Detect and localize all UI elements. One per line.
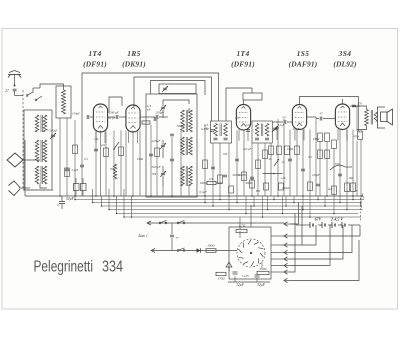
osc coil L4 [181, 110, 193, 132]
svg-text:1S5: 1S5 [297, 49, 310, 58]
wire out bottom [357, 126, 367, 136]
wire grid loop T1 [109, 97, 122, 113]
switch arm mid [113, 142, 119, 150]
capacitor c1 [94, 149, 98, 151]
rotary wires [229, 231, 262, 268]
tube V2 1R5 [126, 105, 140, 132]
wire T4 plate right [307, 117, 316, 119]
svg-text:334: 334 [102, 259, 123, 276]
osc coil L6 [181, 166, 193, 186]
svg-text:0,1µF: 0,1µF [278, 124, 285, 127]
trimmer if2 right [272, 124, 285, 132]
RF coil box [24, 110, 52, 190]
svg-text:500pF: 500pF [177, 124, 187, 128]
osc trimmer 2 [160, 143, 166, 149]
svg-text:47k: 47k [209, 177, 214, 181]
IF1 coil b [224, 124, 228, 137]
IF1 cap a [214, 138, 218, 140]
capacitor 220pF osc [170, 134, 174, 136]
svg-text:37: 37 [176, 236, 180, 240]
svg-text:170Ω: 170Ω [217, 277, 225, 281]
svg-text:Διακ ć: Διακ ć [137, 234, 148, 238]
wire osc internal 3 [162, 166, 164, 186]
capacitor c13 [223, 175, 227, 177]
label 680 [246, 181, 254, 185]
capacitor c3 [80, 165, 84, 167]
band switch contacts [26, 88, 42, 101]
osc trimmer 1 [160, 105, 166, 111]
capacitor c2 [65, 169, 79, 172]
osc core 2 [186, 137, 187, 155]
trimmer 7-20pF [47, 129, 59, 140]
tube leads [129, 132, 138, 144]
capacitor 200pF b [156, 111, 166, 120]
svg-text:25 pF: 25 pF [292, 127, 299, 131]
wire T3 grid cap [243, 100, 245, 105]
resistor r14 [155, 148, 160, 157]
label +4.5V [241, 274, 250, 279]
bus staircase verticals [74, 189, 132, 218]
capacitor c4 [211, 167, 215, 169]
resistor 170 left [216, 272, 226, 280]
resistor r13 [351, 183, 356, 192]
svg-text:170: 170 [357, 102, 362, 106]
resistor r10 [308, 182, 313, 191]
electrolytic 32uF b [255, 275, 266, 287]
resistor 47k h [207, 177, 216, 185]
capacitor osc top [154, 117, 156, 121]
wire link a [233, 174, 247, 176]
capacitor c10 [338, 174, 342, 176]
svg-text:680: 680 [256, 189, 261, 193]
capacitor 200pF a [109, 111, 120, 120]
resistor r5 [218, 175, 223, 184]
capacitor c5 [235, 159, 239, 161]
wire antenna to coil [15, 91, 24, 96]
svg-text:3S4: 3S4 [338, 49, 352, 58]
svg-text:50µF: 50µF [66, 197, 75, 201]
wire T1-T2 [108, 116, 126, 118]
label diak [137, 234, 148, 238]
svg-text:950Ω: 950Ω [259, 267, 267, 271]
battery return bottom [291, 240, 359, 281]
rotary bottom wire [228, 281, 270, 283]
wire right drop dashed [360, 198, 362, 222]
tube label 1T4 (DF91) [231, 49, 255, 69]
svg-text:25: 25 [355, 189, 359, 193]
resistor r15 [269, 146, 290, 155]
wires box to arrows [271, 236, 284, 272]
antenna coil box [56, 86, 71, 118]
wire speaker top [350, 106, 367, 110]
svg-text:50: 50 [282, 116, 286, 120]
IF2 cap b [265, 138, 269, 140]
battery 2-4.5V cells [330, 217, 345, 229]
svg-text:115 pF: 115 pF [201, 127, 210, 131]
svg-text:7-20 pF: 7-20 pF [47, 129, 59, 133]
junction dots [59, 195, 354, 197]
switch 1b [177, 220, 185, 224]
label 50pF [282, 116, 286, 120]
resistor 180 [206, 244, 216, 253]
switch 2a [177, 248, 185, 252]
label 115pF if1 [203, 123, 214, 131]
svg-text:200pF: 200pF [156, 111, 166, 115]
grid shield box T3 [226, 88, 262, 121]
battery 67V cells [308, 217, 325, 229]
diode D2 triangle [226, 262, 232, 271]
wire arc [330, 162, 345, 170]
resistor r11 [332, 186, 337, 195]
wire T2 right [141, 116, 169, 118]
wire rotary feed a [239, 218, 241, 230]
svg-text:180Ω: 180Ω [207, 244, 215, 248]
capacitor c7 [288, 159, 292, 161]
svg-text:(DL92): (DL92) [333, 60, 356, 69]
resistor r4 [203, 160, 208, 169]
capacitor 27pF antenna [5, 89, 16, 93]
svg-text:680Ω: 680Ω [246, 181, 254, 185]
capacitor grid T5 [316, 112, 335, 121]
title Pelegrinetti 334 [34, 259, 124, 276]
diode D1 [197, 248, 201, 252]
IF2 core [262, 124, 263, 137]
switch wire 1 [147, 221, 284, 225]
switch 1a [159, 220, 167, 224]
rotary switch box [229, 227, 271, 279]
capacitor c12 [149, 154, 153, 156]
wire link b [263, 173, 283, 175]
tube label 1R5 (DK91) [122, 49, 146, 69]
capacitor c8 [301, 169, 305, 171]
resistor r9 [295, 146, 300, 155]
resistor 68k [73, 145, 78, 154]
wire T4 plate top [300, 97, 359, 105]
wire battery taps [291, 224, 296, 225]
tube leads [295, 129, 304, 141]
svg-text:1T4: 1T4 [236, 49, 249, 58]
svg-text:Pelegrinetti: Pelegrinetti [34, 259, 94, 276]
potentiometer 1k [274, 159, 285, 166]
bus main [25, 195, 363, 197]
svg-text:200 pF: 200 pF [107, 116, 116, 120]
bus bundle staircase [75, 200, 364, 218]
tube label 1T4 (DF91) [83, 49, 107, 69]
label 115pF osc [146, 104, 151, 112]
label 2,2k [280, 176, 290, 190]
label 170 cap [352, 102, 362, 107]
svg-text:18k: 18k [223, 152, 228, 156]
osc coil L5 [181, 137, 193, 155]
tube V1 1T4 [93, 104, 107, 132]
svg-text:(DF91): (DF91) [231, 60, 255, 69]
IF2 cap a [255, 138, 259, 140]
wire ant box top [40, 84, 64, 90]
capacitor 50uF [57, 196, 75, 209]
wire link c [200, 182, 222, 184]
svg-text:470k: 470k [353, 135, 360, 139]
label 115pF [177, 124, 187, 128]
svg-text:(DK91): (DK91) [122, 60, 146, 69]
label 120pF [246, 123, 251, 131]
tube label 1S5 (DAF91) [289, 49, 318, 69]
wire top bus C [151, 81, 206, 96]
label 220pF [152, 139, 162, 143]
svg-text:32µF: 32µF [236, 283, 245, 287]
svg-text:39k: 39k [110, 167, 115, 171]
speaker [378, 107, 393, 128]
svg-text:2-4,5 V: 2-4,5 V [330, 217, 343, 222]
wire top bus B [134, 77, 212, 121]
svg-text:120 pF: 120 pF [243, 147, 252, 151]
svg-text:100pF: 100pF [312, 173, 320, 177]
svg-text:1MΩ: 1MΩ [137, 157, 144, 161]
svg-text:67V: 67V [315, 217, 322, 222]
resistor 1.7 top [236, 224, 247, 233]
tube leads [338, 129, 347, 141]
resistor r12 [345, 183, 350, 192]
oscillator box [146, 94, 197, 197]
capacitor 100pF [72, 112, 89, 120]
wire cap to T1 [90, 116, 93, 118]
capacitor sw [170, 223, 179, 250]
resistor r8 [263, 150, 268, 159]
tube V3 1T4 [236, 105, 250, 131]
IF1 core [220, 124, 221, 137]
IF2 coil a [255, 124, 259, 137]
resistor pair mid [318, 150, 330, 159]
wire out top [343, 97, 359, 107]
svg-text:47: 47 [319, 112, 323, 116]
wire gang vertical [24, 140, 26, 196]
resistor 22k [101, 144, 108, 157]
wire L3 bottom [40, 184, 47, 188]
resistor 1M a [119, 147, 124, 156]
wires bus crossings [204, 196, 362, 218]
capacitor grid T4 [272, 120, 292, 124]
svg-text:32µF: 32µF [257, 283, 266, 287]
svg-text:1T4: 1T4 [88, 49, 101, 58]
core L2 [41, 115, 42, 132]
antenna coil L1 [62, 90, 66, 114]
wires vertical drops to bus [60, 106, 361, 196]
resistor 680k [332, 140, 337, 149]
RF coil L3 [35, 166, 47, 184]
resistor r3 [65, 168, 70, 177]
svg-text:0,1µF: 0,1µF [72, 169, 79, 172]
IF2 box [252, 121, 272, 143]
bracket wires [291, 203, 302, 273]
osc core 3 [186, 166, 187, 186]
resistor 1k to osc [142, 121, 150, 124]
wire bus end ticks [360, 194, 364, 209]
svg-text:1MΩ: 1MΩ [287, 147, 294, 151]
tuning capacitor diamond 2 (open) [9, 181, 31, 196]
wire rotary feed b [250, 205, 252, 227]
svg-text:500: 500 [335, 162, 340, 166]
battery return wires [291, 225, 360, 266]
svg-text:10k: 10k [94, 137, 99, 141]
dashed enclosure [23, 90, 55, 190]
tube leads [96, 132, 105, 144]
svg-text:150µF: 150µF [72, 112, 80, 116]
resistor 39k zigzag [110, 164, 117, 179]
tube label 3S4 (DL92) [333, 49, 356, 69]
resistor 950 bottom [257, 267, 269, 275]
IF1 coil a [214, 124, 218, 137]
tube V5 3S4 [335, 104, 349, 130]
wire t5 mid [345, 166, 352, 168]
tuning capacitor diamond 1 [7, 153, 40, 167]
resistor 10M [325, 133, 330, 142]
core L2b [41, 140, 42, 162]
arrow contacts column [284, 222, 291, 283]
misc value labels [84, 116, 358, 195]
output transformer [365, 110, 378, 126]
wire osc internal 1 [163, 100, 189, 118]
tube V4 1S5 [292, 105, 306, 130]
core L3 [41, 166, 42, 184]
RF coil L2b [35, 140, 47, 162]
resistor r7 [256, 160, 261, 169]
resistor r6 [242, 172, 247, 181]
resistor 470k [353, 106, 362, 140]
tube leads [239, 130, 248, 142]
svg-text:1R5: 1R5 [127, 49, 141, 58]
rotary switch wafer [237, 239, 265, 267]
IF2 coil b [265, 124, 269, 137]
capacitor c6 [250, 177, 254, 179]
resistor r16 [229, 180, 284, 193]
svg-text:110: 110 [235, 116, 240, 120]
wire antenna down [14, 75, 16, 87]
resistor pair 50-50 [74, 178, 87, 196]
switch wire 2 [151, 249, 229, 253]
osc core 1 [186, 110, 187, 132]
trimmer box top [159, 84, 196, 94]
trimmer T4 grid [275, 127, 279, 140]
label 390pF [151, 165, 161, 169]
wire osc internal 2 [162, 140, 164, 158]
battery wire [296, 224, 360, 226]
wire top bus A [82, 73, 219, 140]
RF coil L2a [35, 115, 47, 132]
osc trimmer 3 [160, 171, 166, 177]
IF1 cap b [224, 138, 228, 140]
svg-text:220µF: 220µF [152, 139, 162, 143]
IF1 box [211, 121, 232, 143]
svg-text:1MΩ: 1MΩ [313, 137, 320, 141]
svg-text:390 pF: 390 pF [151, 165, 161, 169]
capacitor c11 [170, 159, 174, 161]
capacitor c9 [316, 184, 320, 186]
svg-text:pF: pF [146, 108, 151, 112]
svg-text:50k: 50k [152, 172, 157, 176]
resistor 1M [313, 133, 323, 142]
svg-text:120: 120 [246, 123, 251, 127]
svg-text:200 pF: 200 pF [109, 111, 120, 115]
svg-text:(DF91): (DF91) [83, 60, 107, 69]
svg-text:4k7: 4k7 [328, 187, 333, 191]
svg-text:(DAF91): (DAF91) [289, 60, 318, 69]
antenna [8, 71, 21, 78]
electrolytic 32uF a [233, 272, 245, 287]
